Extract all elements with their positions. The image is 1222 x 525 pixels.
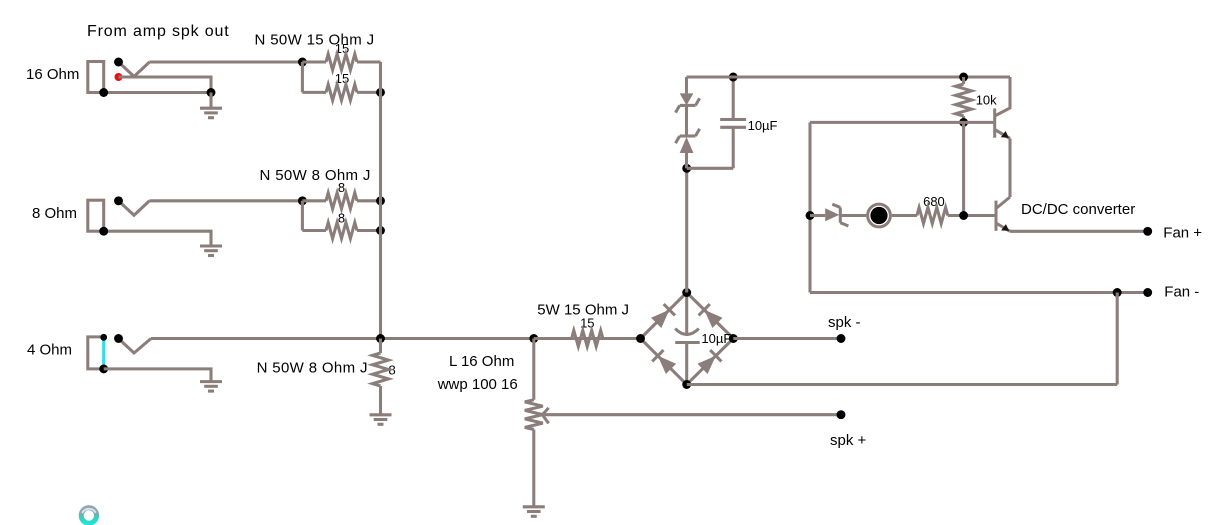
label: 10k — [976, 93, 997, 108]
svg-text:16 Ohm: 16 Ohm — [26, 66, 79, 83]
resistor R3 8 (top) — [302, 193, 380, 209]
wire cap bottom lead — [732, 127, 735, 168]
zener diode Z1 (pointing down) — [676, 93, 700, 112]
junction J2 sleeve — [99, 227, 108, 236]
jack J1 ring terminal dot (red) — [115, 73, 123, 81]
resistor R7 10k — [956, 77, 972, 122]
diode D3 (bottom to left) — [652, 350, 676, 374]
jack J3 tip terminal dot — [114, 334, 123, 343]
jack J1 tip switch contact — [119, 62, 150, 77]
junction Fan- branch — [1113, 288, 1122, 297]
wire main net (4 Ohm line) — [151, 337, 641, 340]
terminal spk- — [837, 334, 846, 343]
optocoupler/lamp X1 disc — [870, 207, 887, 224]
label: 8 Ohm — [32, 205, 77, 222]
label: Fan - — [1164, 284, 1199, 301]
transistor Q2 emitter — [996, 223, 1010, 231]
junction bridge right — [729, 334, 738, 343]
wire bridge top to zener chain — [685, 168, 688, 292]
transistor Q2 collector — [996, 197, 1010, 209]
wire bridge edge top-right — [687, 293, 734, 339]
junction bus/main — [376, 334, 385, 343]
label: L 16 Ohm — [449, 353, 514, 370]
svg-text:Fan -: Fan - — [1164, 284, 1199, 301]
svg-text:wwp 100 16: wwp 100 16 — [437, 376, 518, 393]
junction pair2 right top — [376, 196, 385, 205]
wire J2 tip to R-pair — [150, 199, 303, 202]
wire spk- net — [733, 337, 841, 340]
label: 10uF (bridge) — [701, 331, 731, 346]
wire bridge edge bottom-right — [687, 339, 734, 385]
resistor R8 680 — [917, 208, 948, 224]
wire pair1 left branch — [301, 62, 304, 92]
wire Fan- down — [1116, 293, 1119, 385]
decoration spinner ring — [81, 508, 96, 523]
svg-text:4 Ohm: 4 Ohm — [27, 342, 72, 359]
label resistor value 15 (bottom) — [335, 71, 349, 86]
wire pair2 left branch — [301, 201, 304, 231]
junction bridge bottom — [682, 380, 691, 389]
ground GND2 — [200, 246, 222, 256]
label resistor value 15 (5W) — [580, 315, 594, 330]
jack J3 shorting bar (cyan) — [102, 338, 105, 369]
svg-text:Fan +: Fan + — [1163, 225, 1202, 242]
wire left loop vertical — [808, 122, 811, 292]
label: DC/DC converter — [1021, 201, 1135, 218]
jack J3 4 Ohm body (left/top/bottom) — [88, 337, 104, 369]
terminal Fan+ — [1143, 227, 1152, 236]
jack J2 8 Ohm body — [88, 200, 104, 231]
label: spk + — [830, 432, 867, 449]
diode D4 (bottom to right) — [698, 350, 722, 374]
wire opto line segment 1 — [810, 214, 825, 217]
label: 10uF (top) — [748, 118, 778, 133]
junction J3 top-right — [100, 334, 107, 341]
svg-text:10µF: 10µF — [701, 331, 731, 346]
wire J1 ring to ground — [119, 77, 212, 93]
resistor R6 5W 15 — [534, 331, 641, 347]
terminal Fan- — [1143, 288, 1152, 297]
label: wwp 100 16 — [437, 376, 518, 393]
jack J1 16 Ohm body — [88, 62, 104, 93]
jack J3 tip switch contact — [119, 339, 152, 354]
junction pair1 right — [376, 88, 385, 97]
junction node B (pair2 left) — [298, 196, 307, 205]
wire 10k node down to 680 node — [962, 122, 965, 215]
label resistor value 8 (bottom) — [338, 211, 345, 226]
label: N 50W 8 Ohm J (pair) — [260, 167, 371, 184]
junction top-rail/10k — [959, 73, 968, 82]
diode D1 (left to top) — [651, 304, 675, 328]
diode D2 (right to top) — [699, 304, 723, 328]
junction J1 sleeve — [99, 88, 108, 97]
jack J1 tip terminal dot — [114, 58, 123, 67]
junction pair2 right bottom — [376, 226, 385, 235]
wire bridge cap bottom lead — [685, 343, 688, 385]
junction node A (pair1 left) — [298, 58, 307, 67]
junction cap/top-rail — [729, 73, 738, 82]
resistor R2 15 (bottom) — [302, 84, 380, 100]
svg-text:From amp spk out: From amp spk out — [87, 23, 230, 40]
wire J1 tip to R-pair — [150, 60, 303, 63]
wire opto line segment 4 — [948, 214, 996, 217]
label: Fan + — [1163, 225, 1202, 242]
wire bridge edge top-left — [641, 293, 687, 339]
junction pot top — [529, 334, 538, 343]
wire vertical bus — [379, 62, 382, 339]
wire Q1 emitter to Q2 collector — [1008, 139, 1011, 198]
wire between zeners — [685, 105, 688, 136]
junction bridge left — [636, 334, 645, 343]
wire cap top lead — [732, 77, 735, 120]
optocoupler/lamp X1 ring — [868, 204, 891, 227]
svg-text:L 16 Ohm: L 16 Ohm — [449, 353, 514, 370]
capacitor C1 10uF plates — [720, 120, 746, 128]
wire zener bottom lead — [685, 153, 688, 168]
wire J2 sleeve to ground — [104, 231, 211, 246]
wire Fan+ net — [1010, 230, 1148, 233]
ground GND4 — [370, 415, 392, 425]
label resistor value 15 (top) — [335, 41, 349, 56]
resistor R4 8 (bottom) — [302, 223, 380, 239]
junction 680/base node — [959, 211, 968, 220]
svg-text:8: 8 — [338, 180, 345, 195]
wire opto line segment 2 — [840, 214, 866, 217]
svg-text:N 50W 8 Ohm J: N 50W 8 Ohm J — [257, 360, 368, 377]
junction J3 bottom-right — [99, 364, 108, 373]
ground GND1 — [200, 93, 222, 118]
svg-text:spk -: spk - — [828, 314, 861, 331]
zener diode Z2 (pointing up) — [676, 129, 700, 153]
wire zener node to cap — [687, 167, 734, 170]
svg-text:10µF: 10µF — [748, 118, 778, 133]
jack J2 tip switch contact — [119, 201, 150, 216]
wire J3 sleeve to ground — [104, 369, 211, 382]
wire spk+ net — [548, 413, 842, 416]
zener diode Z3 (horizontal) — [825, 204, 848, 226]
transistor Q2 emitter arrow — [1001, 224, 1009, 231]
wire Fan- net — [810, 291, 1148, 294]
svg-text:DC/DC converter: DC/DC converter — [1021, 201, 1135, 218]
capacitor C2 straight plate — [675, 341, 700, 344]
jack J2 tip terminal dot — [114, 196, 123, 205]
junction bridge top — [682, 288, 691, 297]
label resistor value 8 (top) — [338, 180, 345, 195]
ground GND5 — [523, 507, 545, 517]
wire bridge edge bottom-left — [641, 339, 687, 385]
junction opto line left — [806, 211, 815, 220]
wire pair1 right branch — [379, 62, 382, 92]
label: spk - — [828, 314, 861, 331]
transistor Q1 base bar — [993, 108, 996, 137]
label: 16 Ohm — [26, 66, 79, 83]
transistor Q1 collector — [995, 77, 1010, 116]
wire bottom return — [687, 383, 1117, 386]
svg-text:N 50W 15 Ohm J: N 50W 15 Ohm J — [255, 32, 375, 49]
resistor R1 15 (top) — [302, 54, 380, 70]
label: 680 — [923, 194, 945, 209]
potentiometer P1 L 16 Ohm — [525, 339, 543, 507]
wire opto line segment 3 — [892, 214, 917, 217]
svg-text:spk +: spk + — [830, 432, 867, 449]
wire Q1 base line — [810, 121, 995, 124]
svg-text:8 Ohm: 8 Ohm — [32, 205, 77, 222]
wire zener chain top — [685, 77, 688, 93]
svg-text:680: 680 — [923, 194, 945, 209]
resistor R5 8 (vertical) — [373, 339, 389, 415]
wire J1 sleeve to ground — [104, 91, 211, 94]
label: N 50W 8 Ohm J (single) — [257, 360, 368, 377]
junction J1 ground node — [207, 88, 216, 97]
transistor Q1 emitter arrow — [1001, 131, 1009, 138]
svg-text:10k: 10k — [976, 93, 997, 108]
label resistor value 8 (vertical) — [389, 363, 396, 378]
label: 4 Ohm — [27, 342, 72, 359]
capacitor C2 10uF (in bridge, curved plate) — [675, 329, 699, 335]
label: N 50W 15 Ohm J — [255, 32, 375, 49]
junction 10k bottom — [959, 118, 968, 127]
ground GND3 — [200, 382, 222, 392]
svg-text:8: 8 — [338, 211, 345, 226]
transistor Q2 base bar — [995, 201, 998, 231]
junction zener/cap node — [682, 164, 691, 173]
wire bridge cap top lead — [685, 293, 688, 334]
label: 5W 15 Ohm J — [537, 302, 629, 319]
svg-text:N 50W 8 Ohm J: N 50W 8 Ohm J — [260, 167, 371, 184]
terminal spk+ — [837, 410, 846, 419]
transistor Q1 emitter — [995, 130, 1010, 139]
potentiometer wiper arrow — [542, 408, 548, 424]
wire top rail — [687, 75, 1011, 78]
label: From amp spk out — [87, 23, 230, 40]
